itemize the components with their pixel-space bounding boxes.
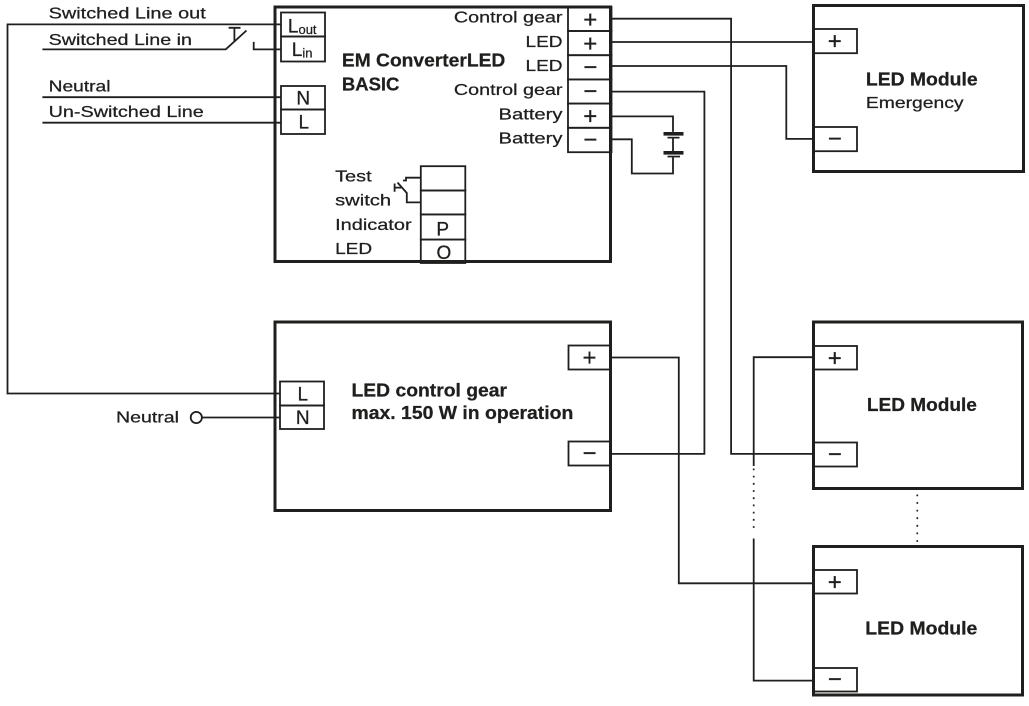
wire: chain lower solid part to bottom module minus: [754, 539, 814, 681]
svg-text:Battery: Battery: [499, 131, 563, 148]
svg-text:Test: Test: [335, 168, 372, 185]
U2 terminal + box: [569, 346, 611, 370]
wire: middle module + chain down (upper solid part): [754, 357, 814, 466]
bottom module + terminal: [814, 570, 858, 594]
svg-text:max. 150 W in operation: max. 150 W in operation: [352, 403, 574, 423]
svg-text:Control gear: Control gear: [454, 10, 563, 27]
middle module - terminal: [814, 443, 858, 467]
svg-text:LED: LED: [526, 34, 563, 51]
svg-text:LED: LED: [526, 58, 563, 75]
terminal L box: [281, 110, 325, 135]
svg-text:Switched Line in: Switched Line in: [49, 32, 192, 49]
svg-text:N: N: [296, 89, 310, 110]
svg-text:+: +: [828, 569, 842, 596]
bottom module - terminal: [814, 668, 858, 692]
wire: chain dotted continuation: [753, 469, 755, 531]
svg-text:P: P: [436, 219, 449, 240]
svg-text:Emergency: Emergency: [866, 95, 964, 112]
battery BT1 link between cells: [672, 138, 674, 151]
svg-text:−: −: [828, 666, 842, 693]
svg-text:−: −: [583, 78, 597, 105]
svg-text:EM ConverterLED: EM ConverterLED: [342, 51, 505, 71]
switch S1 blade: [225, 31, 246, 50]
svg-text:switch: switch: [335, 193, 391, 210]
svg-text:O: O: [437, 243, 452, 264]
U2 terminal N box: [280, 406, 324, 430]
svg-text:−: −: [583, 127, 597, 154]
wire: control gear - (U1 row4) down to LED control gear minus: [612, 92, 705, 454]
wire: un-switched line to L: [42, 122, 281, 124]
test switch S2 actuator: [395, 184, 402, 192]
svg-text:LED: LED: [335, 241, 372, 258]
LED module emergency box: [814, 6, 1024, 172]
test switch S2 blade and bottom lead: [398, 183, 421, 203]
svg-text:LED control gear: LED control gear: [352, 381, 508, 401]
battery BT1 cell plates: [664, 132, 684, 157]
svg-text:N: N: [296, 408, 310, 429]
switch S1 fixed contact to Lin: [254, 42, 281, 50]
U2 terminal L box: [280, 382, 324, 406]
middle LED module box: [814, 322, 1023, 489]
svg-text:Switched Line out: Switched Line out: [49, 6, 207, 23]
dotted continuation between modules: [916, 495, 918, 543]
wire: control gear + (U1 row1) down to middle LED module minus: [612, 19, 814, 454]
svg-text:Indicator: Indicator: [335, 217, 412, 234]
svg-text:Control gear: Control gear: [454, 82, 563, 99]
svg-text:−: −: [828, 126, 842, 153]
test switch S2 top lead: [403, 178, 421, 181]
bottom LED module box: [814, 547, 1023, 696]
EM converter unit U1 box: [275, 7, 611, 262]
svg-text:−: −: [828, 441, 842, 468]
svg-text:Neutral: Neutral: [116, 409, 179, 426]
svg-text:Un-Switched Line: Un-Switched Line: [49, 104, 204, 121]
wire: neutral (bottom) to U2 N: [202, 417, 281, 419]
wire: U2 + down to bottom LED module plus: [612, 358, 814, 584]
svg-text:−: −: [583, 54, 597, 81]
wire: switched line out (left vertical feed down to LED control gear L): [8, 24, 282, 393]
svg-text:+: +: [828, 345, 842, 372]
emergency module + terminal: [814, 29, 858, 53]
wire: battery - lead: [612, 139, 674, 173]
U2 terminal - box: [569, 442, 611, 466]
middle module + terminal: [814, 346, 858, 370]
svg-text:LED Module: LED Module: [865, 619, 977, 639]
wire: LED + (U1 row2) to emergency module plus: [612, 41, 814, 43]
svg-text:L: L: [299, 113, 310, 134]
terminal Lout box: [281, 13, 325, 37]
terminal Lin box: [281, 37, 325, 62]
neutral open terminal circle: [191, 412, 202, 423]
wire: neutral (top) to N: [42, 96, 281, 98]
svg-text:LED Module: LED Module: [866, 70, 978, 90]
svg-text:L: L: [298, 385, 309, 406]
wire: switched line in (to switch): [42, 48, 225, 50]
terminal N box: [281, 86, 325, 110]
svg-text:LED Module: LED Module: [867, 395, 977, 415]
test switch terminal column (4 cells): [421, 166, 466, 190]
wire: battery + lead: [612, 116, 674, 131]
svg-text:BASIC: BASIC: [342, 75, 400, 95]
svg-text:−: −: [582, 440, 596, 467]
emergency module - terminal: [814, 127, 858, 151]
LED control gear unit U2 box: [275, 322, 611, 511]
svg-text:+: +: [582, 345, 596, 372]
wire: LED - (U1 row3) to emergency module minus: [612, 66, 814, 139]
svg-text:Battery: Battery: [499, 106, 563, 123]
svg-text:Neutral: Neutral: [49, 79, 111, 96]
switch S1 actuator T-bar: [229, 28, 241, 42]
svg-text:+: +: [828, 28, 842, 55]
right terminal column of U1 (6 cells): [568, 7, 612, 31]
